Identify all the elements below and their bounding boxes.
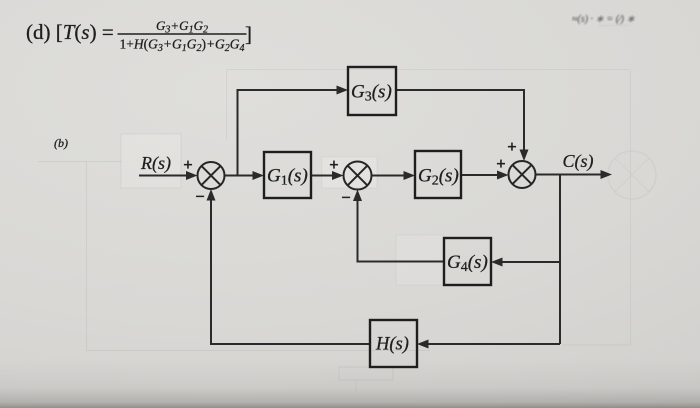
svg-text:]: ] — [245, 22, 252, 46]
wire branch to G3 — [238, 90, 339, 176]
svg-text:G4(s): G4(s) — [447, 252, 488, 275]
svg-text:(b): (b) — [54, 136, 68, 150]
formula (d) T(s) — [26, 18, 252, 54]
block G1 — [264, 152, 311, 198]
svg-text:−: − — [341, 188, 351, 207]
svg-text:(d) [T(s) =: (d) [T(s) = — [26, 20, 114, 44]
arrowhead into summer1 bottom — [207, 189, 216, 201]
wire input R(s) — [139, 175, 188, 177]
arrowhead into G1 — [253, 171, 265, 180]
summing junction S3 — [509, 161, 536, 188]
block G3 — [348, 67, 396, 115]
arrowhead into H — [417, 340, 429, 349]
wire H to summer1 — [211, 198, 370, 344]
wire summer2 to G2 — [372, 175, 408, 177]
arrowhead into summer1 — [186, 171, 198, 180]
summing junction S2 — [344, 162, 372, 190]
wire G1 to summer2 — [311, 175, 335, 177]
svg-text:+: + — [329, 155, 339, 174]
wire output C(s) — [536, 174, 602, 176]
block G2 — [415, 151, 461, 198]
svg-text:G3+G1G2: G3+G1G2 — [156, 18, 208, 36]
arrowhead into G3 — [337, 86, 349, 95]
arrowhead into summer3 left — [497, 171, 509, 180]
arrowhead into summer2 — [332, 171, 344, 180]
svg-text:1+H(G3+G1G2)+G2G4: 1+H(G3+G1G2)+G2G4 — [119, 37, 244, 55]
svg-text:G3(s): G3(s) — [351, 82, 392, 105]
svg-text:C(s): C(s) — [563, 151, 594, 172]
wire G4 to summer2 — [358, 198, 445, 262]
svg-text:+: + — [183, 155, 193, 174]
wire trunk to G4 — [500, 261, 560, 263]
arrowhead into G4 — [491, 258, 503, 267]
wire summer1 to G1 — [225, 175, 257, 177]
block H — [370, 320, 417, 367]
summing junction S1 — [198, 162, 225, 189]
svg-text:+: + — [507, 137, 517, 156]
arrowhead into summer2 bottom — [353, 190, 362, 202]
wire trunk to H — [426, 343, 560, 345]
wire G2 to summer3 — [461, 174, 500, 176]
svg-text:G2(s): G2(s) — [418, 166, 459, 189]
arrowhead output C(s) — [601, 170, 613, 179]
block G4 — [444, 238, 491, 285]
wire G3 to summer3 — [396, 90, 524, 152]
svg-text:+: + — [496, 154, 506, 173]
arrowhead into G2 — [404, 171, 416, 180]
wire takeoff down trunk — [559, 175, 561, 345]
svg-text:≈(s) · ∗ = (∕) ∗: ≈(s) · ∗ = (∕) ∗ — [572, 14, 635, 25]
svg-text:R(s): R(s) — [140, 153, 171, 174]
svg-text:G1(s): G1(s) — [267, 166, 308, 189]
arrowhead into summer3 top — [520, 150, 529, 162]
svg-text:H(s): H(s) — [375, 335, 409, 355]
svg-text:−: − — [195, 187, 205, 206]
